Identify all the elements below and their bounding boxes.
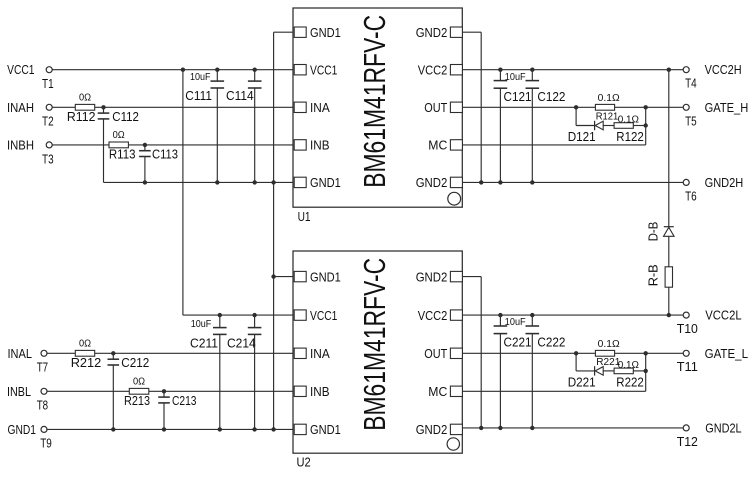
svg-text:INBH: INBH (7, 137, 34, 152)
svg-text:T10: T10 (677, 321, 698, 336)
svg-text:C213: C213 (172, 393, 197, 408)
svg-text:0.1Ω: 0.1Ω (618, 360, 640, 371)
svg-text:MC: MC (428, 138, 447, 153)
svg-text:0.1Ω: 0.1Ω (618, 115, 640, 126)
svg-text:GND2L: GND2L (705, 420, 741, 435)
svg-text:0Ω: 0Ω (113, 130, 126, 141)
svg-text:INA: INA (310, 100, 330, 115)
svg-text:INB: INB (310, 384, 330, 399)
svg-text:C222: C222 (537, 334, 565, 349)
svg-text:T11: T11 (677, 359, 698, 374)
svg-text:VCC2H: VCC2H (705, 62, 742, 77)
svg-text:C221: C221 (504, 334, 532, 349)
svg-text:VCC1: VCC1 (310, 63, 337, 78)
svg-text:C113: C113 (152, 147, 178, 162)
svg-text:C122: C122 (537, 89, 565, 104)
svg-text:T1: T1 (42, 76, 54, 91)
svg-text:GND1: GND1 (310, 269, 341, 284)
svg-text:C211: C211 (190, 335, 218, 350)
svg-text:GATE_H: GATE_H (705, 100, 749, 115)
svg-text:D221: D221 (568, 375, 596, 390)
svg-text:GND1: GND1 (310, 175, 341, 190)
svg-text:0Ω: 0Ω (133, 376, 146, 387)
svg-text:T6: T6 (685, 188, 697, 203)
svg-text:C111: C111 (185, 88, 212, 103)
svg-text:INBL: INBL (7, 384, 31, 399)
svg-text:R112: R112 (67, 109, 96, 124)
svg-text:R113: R113 (109, 147, 136, 162)
svg-text:C121: C121 (504, 89, 532, 104)
svg-text:OUT: OUT (424, 100, 447, 115)
svg-text:T3: T3 (42, 151, 54, 166)
svg-text:D121: D121 (568, 129, 596, 144)
svg-text:0.1Ω: 0.1Ω (598, 93, 621, 104)
svg-text:C114: C114 (226, 88, 254, 103)
svg-text:T9: T9 (40, 435, 52, 450)
svg-text:10uF: 10uF (505, 317, 526, 328)
svg-text:R212: R212 (71, 355, 102, 370)
svg-text:GND2: GND2 (416, 25, 448, 40)
svg-text:VCC2L: VCC2L (705, 308, 741, 323)
svg-text:T7: T7 (37, 359, 48, 374)
svg-text:GATE_L: GATE_L (705, 346, 748, 361)
svg-text:T8: T8 (37, 397, 48, 412)
svg-text:GND2H: GND2H (705, 175, 744, 190)
svg-text:GND1: GND1 (310, 25, 341, 40)
svg-text:T4: T4 (685, 76, 697, 91)
svg-text:R-B: R-B (645, 264, 660, 286)
svg-text:R121: R121 (596, 111, 619, 122)
svg-text:U2: U2 (297, 454, 311, 469)
svg-text:T12: T12 (677, 434, 698, 449)
svg-text:C212: C212 (121, 355, 149, 370)
svg-text:0Ω: 0Ω (79, 92, 92, 103)
svg-text:GND1: GND1 (310, 422, 341, 437)
svg-text:0Ω: 0Ω (79, 338, 92, 349)
svg-text:MC: MC (428, 384, 447, 399)
svg-text:C112: C112 (112, 109, 139, 124)
svg-text:GND2: GND2 (416, 175, 448, 190)
svg-text:10uF: 10uF (190, 72, 211, 83)
svg-text:BM61M41RFV-C: BM61M41RFV-C (357, 258, 392, 431)
svg-text:VCC2: VCC2 (418, 63, 448, 78)
svg-text:INAH: INAH (7, 100, 34, 115)
svg-text:GND2: GND2 (416, 269, 448, 284)
svg-text:10uF: 10uF (505, 72, 526, 83)
svg-text:VCC2: VCC2 (418, 308, 448, 323)
svg-text:C214: C214 (227, 335, 256, 350)
svg-text:R222: R222 (616, 375, 643, 390)
svg-text:INA: INA (310, 346, 330, 361)
svg-text:0.1Ω: 0.1Ω (598, 339, 621, 350)
svg-text:GND1: GND1 (8, 422, 37, 437)
svg-text:GND2: GND2 (416, 422, 448, 437)
svg-text:INAL: INAL (8, 346, 33, 361)
svg-text:T5: T5 (685, 113, 697, 128)
svg-text:INB: INB (310, 138, 330, 153)
svg-text:VCC1: VCC1 (310, 308, 337, 323)
svg-text:VCC1: VCC1 (7, 62, 34, 77)
svg-text:R213: R213 (124, 393, 150, 408)
svg-text:BM61M41RFV-C: BM61M41RFV-C (357, 15, 392, 188)
svg-text:T2: T2 (42, 114, 54, 129)
svg-text:U1: U1 (298, 209, 311, 224)
svg-text:OUT: OUT (424, 346, 447, 361)
svg-text:10uF: 10uF (191, 319, 212, 330)
svg-text:D-B: D-B (645, 222, 660, 242)
svg-text:R122: R122 (616, 129, 643, 144)
